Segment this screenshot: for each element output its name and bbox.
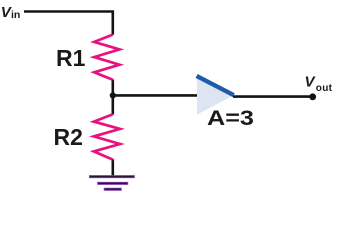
svg-text:R2: R2 (54, 124, 83, 150)
svg-text:R1: R1 (56, 45, 86, 71)
svg-text:A=3: A=3 (207, 106, 254, 130)
svg-text:out: out (316, 83, 333, 94)
svg-text:in: in (11, 9, 20, 21)
